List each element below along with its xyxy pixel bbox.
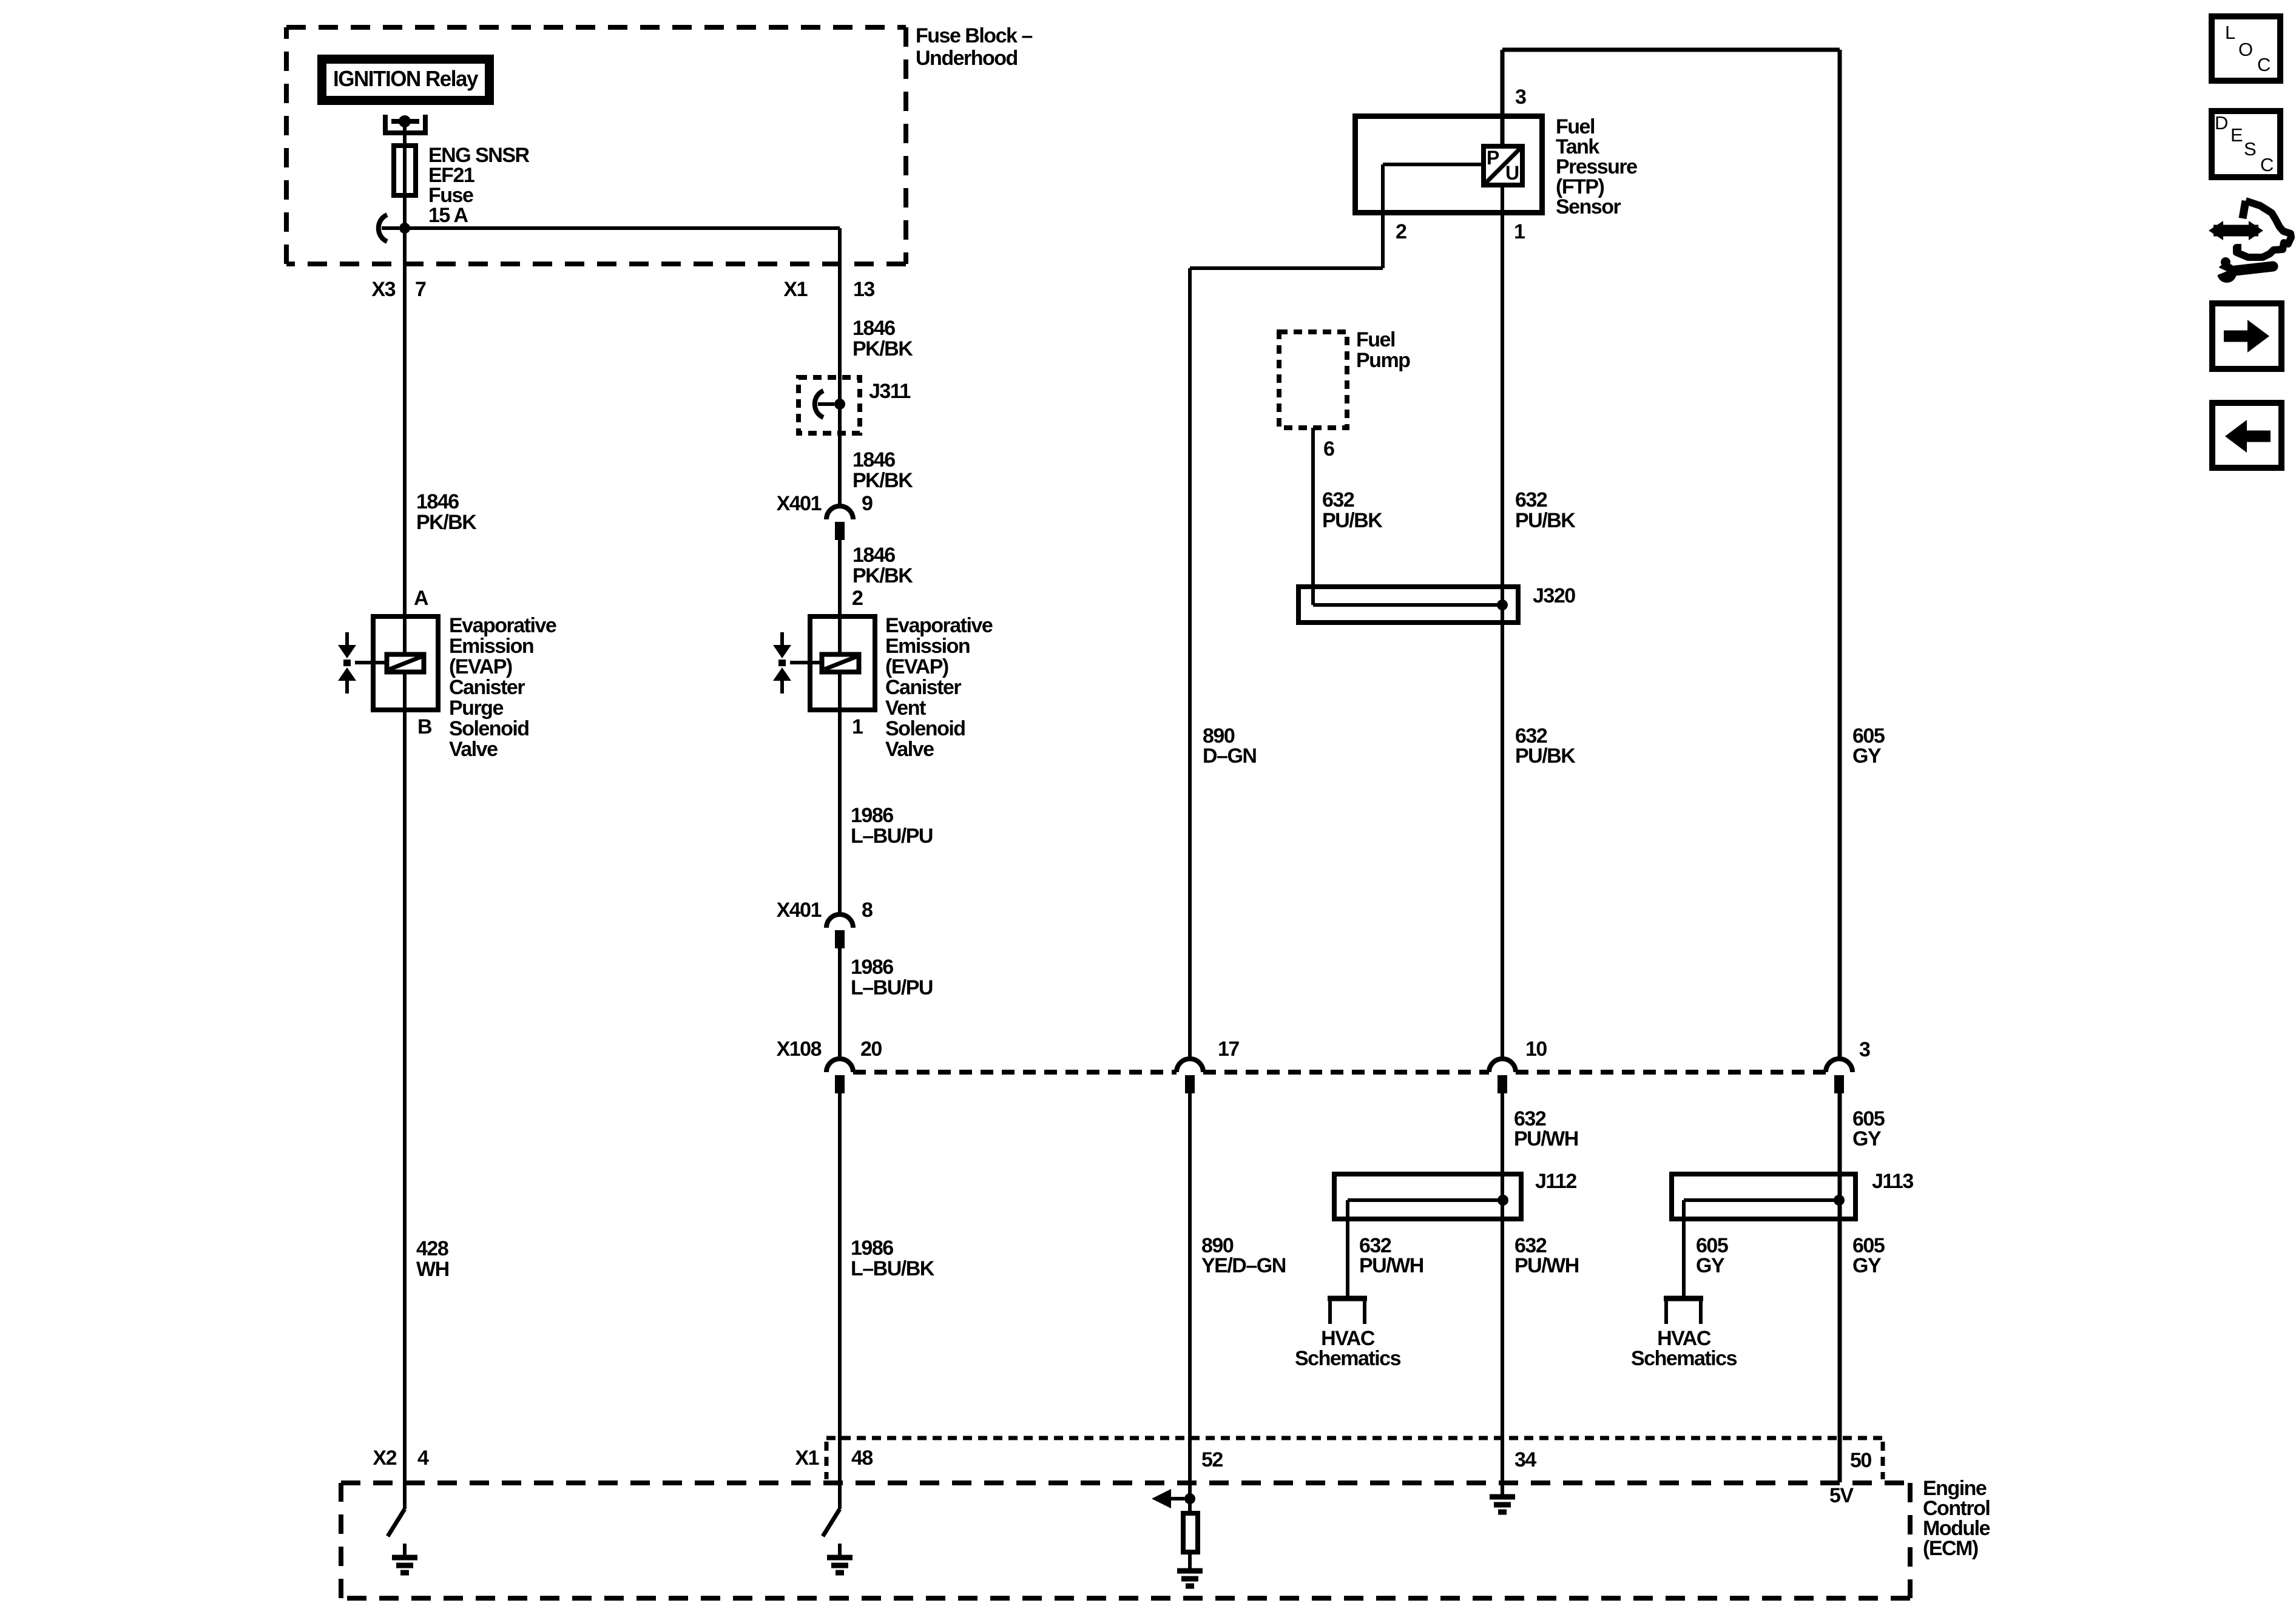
svg-text:GY: GY (1852, 1127, 1882, 1150)
svg-text:632: 632 (1515, 488, 1547, 511)
svg-text:PK/BK: PK/BK (853, 469, 913, 492)
svg-text:2: 2 (852, 587, 863, 610)
svg-text:X108: X108 (777, 1038, 822, 1061)
svg-text:3: 3 (1859, 1038, 1870, 1061)
svg-text:GY: GY (1696, 1254, 1725, 1277)
svg-text:PU/BK: PU/BK (1515, 509, 1576, 532)
svg-text:D–GN: D–GN (1203, 744, 1256, 768)
svg-text:50: 50 (1850, 1449, 1871, 1472)
svg-text:Evaporative: Evaporative (885, 614, 993, 637)
svg-text:J311: J311 (869, 380, 910, 403)
svg-text:6: 6 (1323, 437, 1334, 461)
svg-text:Fuse Block –: Fuse Block – (916, 24, 1032, 47)
svg-text:YE/D–GN: YE/D–GN (1201, 1254, 1286, 1277)
svg-text:10: 10 (1525, 1038, 1547, 1061)
svg-text:Fuel: Fuel (1356, 328, 1395, 351)
svg-text:8: 8 (862, 899, 873, 922)
svg-text:9: 9 (862, 492, 873, 515)
svg-text:S: S (2244, 138, 2257, 160)
svg-text:1986: 1986 (851, 804, 893, 827)
svg-text:Solenoid: Solenoid (449, 717, 529, 740)
svg-text:C: C (2260, 154, 2274, 175)
svg-text:D: D (2215, 112, 2228, 133)
svg-text:L: L (2225, 22, 2235, 43)
svg-text:PK/BK: PK/BK (853, 564, 913, 587)
svg-text:Evaporative: Evaporative (449, 614, 556, 637)
svg-text:PU/WH: PU/WH (1359, 1254, 1423, 1277)
svg-text:U: U (1505, 162, 1519, 184)
svg-text:X401: X401 (777, 899, 822, 922)
svg-text:34: 34 (1514, 1448, 1536, 1471)
svg-text:O: O (2238, 39, 2253, 60)
svg-text:52: 52 (1201, 1448, 1223, 1471)
svg-text:3: 3 (1515, 86, 1526, 109)
svg-text:1986: 1986 (851, 956, 893, 979)
svg-text:Schematics: Schematics (1631, 1347, 1737, 1370)
svg-text:428: 428 (416, 1237, 448, 1260)
svg-text:1986: 1986 (851, 1237, 893, 1260)
svg-text:5V: 5V (1829, 1484, 1854, 1507)
svg-text:Valve: Valve (885, 738, 934, 761)
svg-text:X401: X401 (777, 492, 822, 515)
svg-text:L–BU/PU: L–BU/PU (851, 976, 933, 999)
svg-text:E: E (2230, 124, 2243, 146)
svg-text:PK/BK: PK/BK (416, 511, 477, 534)
svg-text:PU/WH: PU/WH (1514, 1127, 1578, 1150)
svg-text:Pump: Pump (1356, 349, 1410, 372)
svg-text:15 A: 15 A (428, 204, 468, 227)
svg-text:Solenoid: Solenoid (885, 717, 965, 740)
svg-text:(EVAP): (EVAP) (885, 655, 948, 678)
svg-text:X1: X1 (795, 1447, 819, 1470)
svg-text:Valve: Valve (449, 738, 498, 761)
svg-text:(EVAP): (EVAP) (449, 655, 512, 678)
svg-text:Sensor: Sensor (1556, 195, 1621, 218)
svg-text:PU/WH: PU/WH (1514, 1254, 1579, 1277)
svg-text:13: 13 (853, 278, 874, 301)
svg-text:B: B (417, 715, 432, 738)
svg-text:20: 20 (860, 1038, 882, 1061)
svg-text:X3: X3 (371, 278, 395, 301)
svg-text:Canister: Canister (449, 676, 525, 699)
svg-text:Purge: Purge (449, 697, 503, 720)
svg-text:GY: GY (1852, 1254, 1882, 1277)
svg-text:1846: 1846 (853, 544, 895, 567)
svg-text:PU/BK: PU/BK (1515, 744, 1576, 768)
svg-text:1: 1 (852, 715, 863, 738)
svg-text:7: 7 (415, 278, 426, 301)
svg-text:Emission: Emission (449, 635, 533, 658)
svg-text:C: C (2257, 54, 2271, 75)
svg-text:P: P (1487, 147, 1499, 169)
svg-text:J320: J320 (1533, 584, 1575, 607)
svg-text:1846: 1846 (853, 448, 895, 471)
svg-text:A: A (414, 587, 428, 610)
svg-text:Emission: Emission (885, 635, 970, 658)
svg-text:Schematics: Schematics (1295, 1347, 1401, 1370)
svg-text:PU/BK: PU/BK (1322, 509, 1383, 532)
svg-text:1846: 1846 (416, 490, 459, 513)
svg-text:(ECM): (ECM) (1923, 1537, 1978, 1560)
svg-text:4: 4 (417, 1447, 429, 1470)
svg-text:1: 1 (1514, 220, 1525, 243)
svg-text:L–BU/BK: L–BU/BK (851, 1257, 935, 1280)
svg-text:X1: X1 (783, 278, 807, 301)
svg-text:IGNITION Relay: IGNITION Relay (333, 66, 478, 91)
svg-text:J112: J112 (1535, 1170, 1576, 1193)
svg-text:48: 48 (851, 1447, 873, 1470)
svg-text:L–BU/PU: L–BU/PU (851, 825, 933, 848)
svg-text:J113: J113 (1872, 1170, 1913, 1193)
svg-text:2: 2 (1396, 220, 1406, 243)
svg-text:Vent: Vent (885, 697, 926, 720)
svg-text:17: 17 (1218, 1038, 1239, 1061)
svg-text:X2: X2 (373, 1447, 396, 1470)
svg-text:Canister: Canister (885, 676, 961, 699)
svg-text:PK/BK: PK/BK (853, 337, 913, 360)
svg-text:1846: 1846 (853, 317, 895, 340)
svg-text:Underhood: Underhood (916, 47, 1018, 70)
svg-text:632: 632 (1322, 488, 1354, 511)
svg-text:GY: GY (1852, 744, 1882, 768)
svg-text:WH: WH (416, 1258, 449, 1281)
